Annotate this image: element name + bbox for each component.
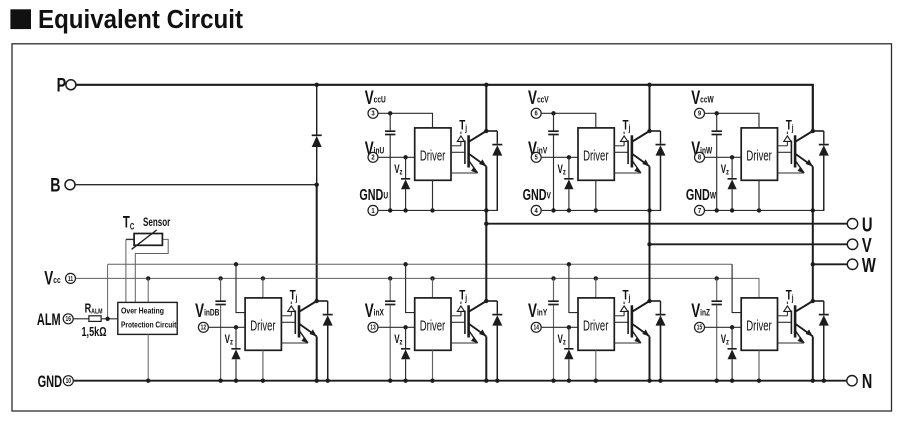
svg-text:Driver: Driver xyxy=(583,148,608,164)
svg-text:11: 11 xyxy=(68,275,74,283)
svg-text:B: B xyxy=(50,173,60,196)
svg-text:Driver: Driver xyxy=(420,148,445,164)
svg-text:Driver: Driver xyxy=(746,318,771,334)
svg-text:Driver: Driver xyxy=(420,318,445,334)
svg-text:ALM: ALM xyxy=(37,311,61,329)
svg-text:Driver: Driver xyxy=(583,318,608,334)
svg-text:16: 16 xyxy=(65,315,71,323)
svg-text:Driver: Driver xyxy=(250,318,275,334)
svg-text:Vz: Vz xyxy=(225,334,234,347)
svg-text:GND: GND xyxy=(38,373,62,391)
svg-text:N: N xyxy=(862,370,872,393)
svg-text:1,5kΩ: 1,5kΩ xyxy=(82,326,107,340)
svg-text:1: 1 xyxy=(371,207,374,215)
svg-text:Vz: Vz xyxy=(558,334,567,347)
svg-text:5: 5 xyxy=(535,154,538,162)
svg-text:2: 2 xyxy=(371,154,374,162)
svg-text:14: 14 xyxy=(533,324,539,332)
svg-text:12: 12 xyxy=(201,324,207,332)
svg-text:Vz: Vz xyxy=(558,164,567,177)
svg-text:Vz: Vz xyxy=(721,164,730,177)
svg-text:Protection Circuit: Protection Circuit xyxy=(121,320,176,330)
svg-text:8: 8 xyxy=(698,154,701,162)
svg-text:Vz: Vz xyxy=(394,334,403,347)
svg-text:15: 15 xyxy=(697,324,703,332)
svg-text:4: 4 xyxy=(535,207,538,215)
svg-text:Vz: Vz xyxy=(394,164,403,177)
svg-text:W: W xyxy=(862,253,876,276)
svg-text:3: 3 xyxy=(371,110,374,118)
svg-text:7: 7 xyxy=(698,207,701,215)
svg-text:Equivalent Circuit: Equivalent Circuit xyxy=(38,6,243,34)
svg-text:13: 13 xyxy=(370,324,376,332)
svg-text:Driver: Driver xyxy=(746,148,771,164)
svg-text:6: 6 xyxy=(535,110,538,118)
svg-text:Sensor: Sensor xyxy=(143,217,170,230)
svg-text:10: 10 xyxy=(66,377,72,385)
svg-text:P: P xyxy=(57,73,67,96)
svg-text:Vz: Vz xyxy=(721,334,730,347)
svg-text:9: 9 xyxy=(698,110,701,118)
svg-text:Over Heating: Over Heating xyxy=(121,306,164,316)
